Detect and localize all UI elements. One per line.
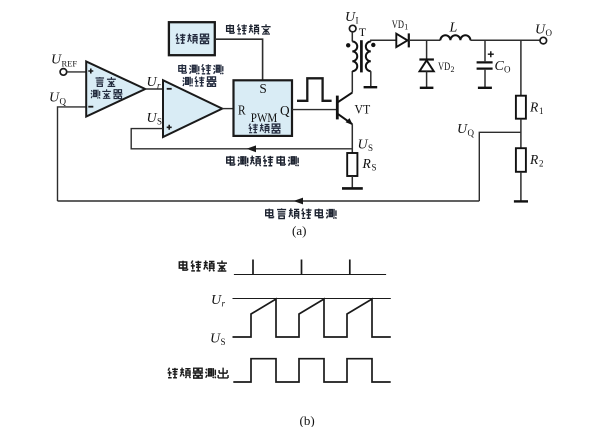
PWM latch U2 box — [234, 80, 293, 136]
arrow current feedback — [247, 145, 257, 152]
svg-text:O: O — [546, 28, 553, 38]
svg-text:U: U — [211, 293, 222, 308]
svg-text:T: T — [359, 25, 367, 39]
svg-text:r: r — [222, 298, 226, 308]
svg-text:R: R — [529, 100, 539, 115]
svg-text:O: O — [504, 65, 511, 75]
svg-text:2: 2 — [539, 158, 544, 168]
svg-text:VD: VD — [438, 59, 451, 73]
label clock 时钟频率 (waveforms) — [179, 260, 227, 271]
node U_S comparator input — [147, 111, 163, 127]
wire U_I to primary — [351, 32, 353, 42]
wire R2 to ground — [520, 172, 522, 201]
svg-text:1: 1 — [539, 106, 544, 116]
svg-text:S: S — [259, 81, 266, 96]
transistor VT (NPN) — [337, 93, 370, 126]
svg-text:U: U — [535, 23, 546, 38]
transformer T primary winding — [352, 42, 357, 72]
svg-text:U: U — [210, 331, 221, 346]
svg-text:REF: REF — [62, 59, 78, 69]
svg-text:VD: VD — [392, 17, 405, 31]
svg-text:R: R — [238, 103, 246, 118]
node U_S waveform label — [210, 331, 226, 347]
transformer core — [360, 40, 363, 72]
svg-text:(a): (a) — [292, 223, 306, 238]
label clock frequency 时钟频率 — [227, 24, 271, 34]
polarity dot primary — [346, 43, 350, 47]
wire secondary top to VD1 — [371, 40, 397, 41]
ground below VD2 — [420, 87, 434, 89]
svg-text:S: S — [157, 116, 162, 126]
node U_Q divider tap — [457, 122, 475, 138]
svg-text:(b): (b) — [300, 413, 315, 427]
label 电流反馈回路 — [227, 156, 299, 167]
op-amp error amplifier 误差放大器 — [86, 62, 145, 117]
polarity dot secondary — [371, 43, 375, 47]
pulse waveform symbol — [297, 78, 332, 101]
svg-text:Q: Q — [468, 128, 475, 138]
wire voltage feedback loop — [58, 200, 480, 202]
node U_Q (left) — [49, 91, 67, 107]
label 电流检测 比较器 — [179, 64, 223, 86]
wire op-amp inverting input to voltage feedback — [58, 107, 87, 201]
svg-text:R: R — [362, 156, 372, 171]
wire RS to ground — [351, 176, 353, 188]
wire rail to R1 — [520, 40, 522, 95]
resistor R2 — [516, 148, 544, 172]
svg-text:U: U — [49, 91, 60, 106]
svg-text:S: S — [372, 163, 377, 173]
label 电压反馈回路 — [266, 208, 337, 218]
svg-text:PWM: PWM — [251, 111, 277, 125]
node U_O output terminal — [535, 23, 553, 44]
svg-text:U: U — [147, 111, 158, 126]
wire VD1 to output rail — [409, 39, 441, 41]
node U_I input terminal — [345, 10, 359, 32]
svg-text:U: U — [147, 75, 158, 90]
svg-text:2: 2 — [451, 65, 455, 74]
node U_r — [147, 75, 162, 91]
clock pulse ticks — [253, 260, 350, 276]
capacitor CO — [477, 40, 511, 87]
ground below RS — [342, 187, 363, 190]
wire comparator noninverting input / current feedback loop — [131, 129, 352, 149]
svg-text:U: U — [358, 137, 369, 152]
wire collector to transformer primary — [351, 71, 353, 93]
latch output waveform — [233, 359, 390, 382]
wire emitter to U_S node and R_S — [351, 124, 353, 153]
svg-text:L: L — [449, 21, 458, 36]
node U_REF terminal — [51, 53, 77, 76]
label 锁存器 — [249, 124, 281, 134]
wire U_Q tap to divider — [479, 132, 521, 201]
wire R1 to R2 — [520, 119, 522, 149]
svg-text:U: U — [51, 53, 62, 68]
svg-text:1: 1 — [404, 23, 408, 32]
svg-text:Q: Q — [280, 103, 290, 118]
svg-text:C: C — [495, 59, 505, 74]
wire op-amp output to comparator inverting input — [145, 88, 163, 90]
resistor RS — [347, 153, 376, 176]
ground below CO — [478, 87, 492, 89]
wire secondary bottom to ground — [370, 71, 372, 87]
diode VD1 — [392, 17, 409, 48]
wire Q output to transistor base — [292, 109, 336, 111]
svg-text:R: R — [529, 152, 539, 167]
diode VD2 freewheel — [419, 40, 454, 87]
inductor L — [440, 21, 470, 41]
label 锁存器输出 — [168, 368, 228, 379]
svg-text:U: U — [345, 10, 356, 25]
svg-text:U: U — [457, 122, 468, 137]
U_r level line — [233, 298, 391, 300]
svg-text:VT: VT — [355, 102, 371, 117]
wire oscillator output to S input — [215, 39, 263, 79]
node U_S emitter — [358, 137, 374, 153]
wire U_REF to op-amp + input — [67, 71, 87, 73]
wire L to U_O — [470, 39, 540, 41]
wire comparator output to R input — [222, 108, 233, 110]
oscillator box 振荡器 — [169, 22, 215, 55]
svg-text:S: S — [221, 337, 226, 347]
arrow voltage feedback — [294, 198, 304, 205]
comparator current-sense 比较器 — [163, 80, 222, 137]
transformer secondary winding — [366, 42, 371, 72]
resistor R1 — [516, 96, 544, 119]
svg-text:S: S — [368, 143, 373, 153]
ground below R2 — [514, 200, 528, 202]
ground transformer secondary — [364, 86, 378, 88]
svg-text:Q: Q — [60, 97, 67, 107]
sawtooth U_S waveform — [233, 299, 391, 337]
clock baseline — [234, 274, 386, 276]
node U_r reference line label — [211, 293, 226, 309]
